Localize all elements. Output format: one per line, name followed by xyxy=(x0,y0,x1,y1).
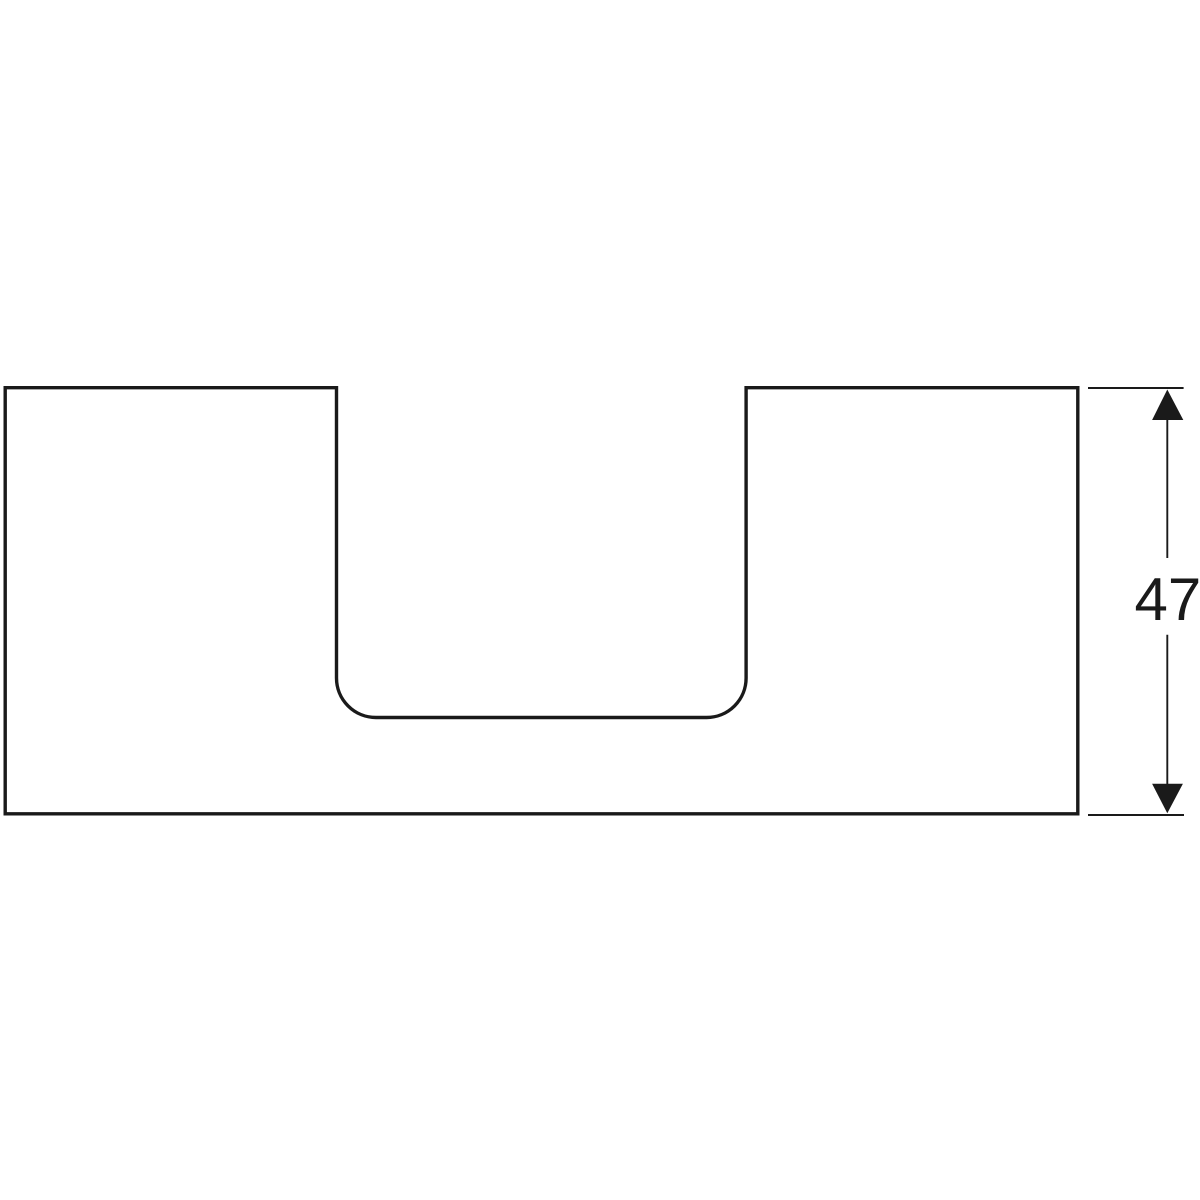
extension line top xyxy=(1088,387,1184,389)
arrowhead down xyxy=(1152,784,1183,814)
svg-text:47: 47 xyxy=(1135,566,1200,633)
extension line bottom xyxy=(1088,814,1184,816)
worktop outline with U-shaped cutout xyxy=(5,388,1078,814)
dimension line lower segment xyxy=(1166,635,1168,785)
dimension line upper segment xyxy=(1166,419,1168,558)
arrowhead up xyxy=(1152,390,1183,421)
